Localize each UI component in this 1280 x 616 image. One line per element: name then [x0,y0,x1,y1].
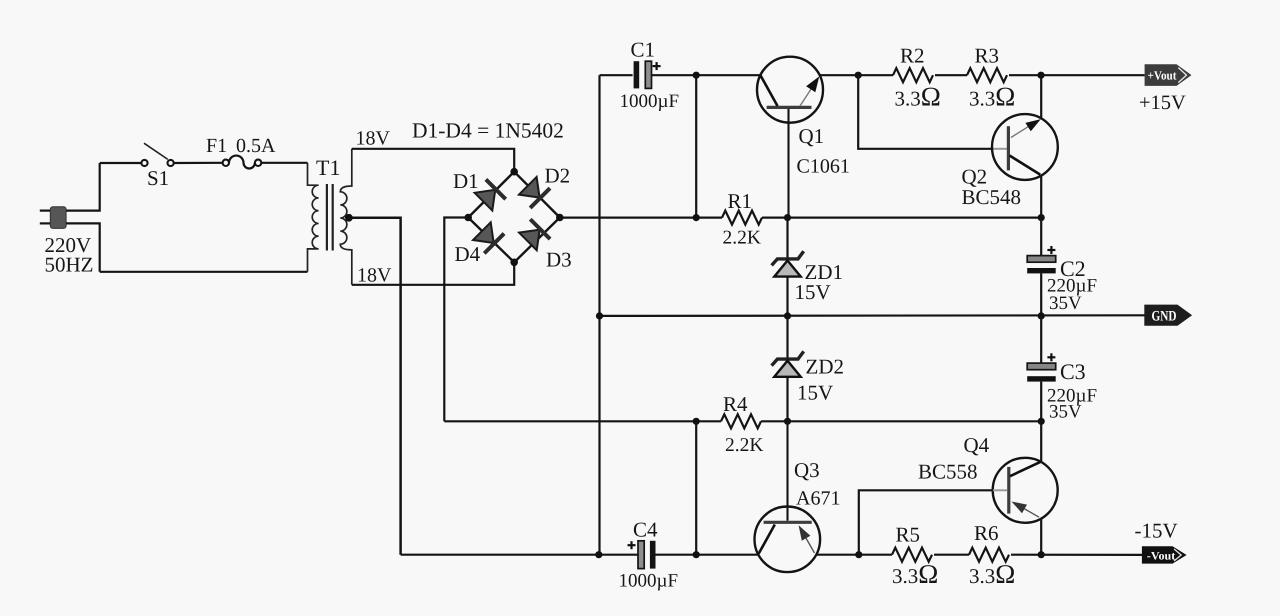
svg-text:R4: R4 [723,392,748,416]
+Vout tag [1145,64,1192,86]
wire R6 to -Vout [1011,554,1142,556]
junction C2 top [1038,214,1045,221]
diode D4 [472,221,504,253]
resistor R5 [892,548,932,562]
svg-text:C1: C1 [631,38,656,62]
svg-text:+Vout: +Vout [1148,69,1178,83]
svg-text:1000µF: 1000µF [620,91,680,112]
capacitor C1 [634,61,661,88]
wire R1 to Q2 emitter rail [762,217,1041,219]
svg-text:D2: D2 [545,164,571,188]
svg-text:D3: D3 [546,248,572,272]
svg-text:15V: 15V [797,381,833,405]
svg-text:GND: GND [1152,309,1177,325]
wire Q2 collector up [1040,75,1042,118]
svg-text:50HZ: 50HZ [45,253,94,277]
wire Q3 to R5 [816,554,892,556]
bottom rail left [401,554,638,556]
wire bridge left to raw negative vertical [444,218,468,422]
wire secondary bottom to bridge bottom [352,262,514,285]
svg-text:R3: R3 [975,44,1000,68]
GND tag [1144,305,1192,326]
wire R2 to R3 [935,74,967,76]
svg-text:ZD2: ZD2 [806,355,845,379]
svg-text:35V: 35V [1049,293,1082,314]
wire R4 to C3 rail [761,420,1041,422]
transformer T1 secondary [340,149,352,285]
capacitor C3 [1027,316,1056,421]
bridge node left [464,214,472,222]
svg-text:3.3Ω: 3.3Ω [969,81,1015,111]
svg-text:3.3Ω: 3.3Ω [892,559,938,589]
svg-text:+15V: +15V [1139,92,1186,114]
bridge node top [510,168,518,176]
capacitor C4 [628,541,656,569]
svg-text:BC558: BC558 [918,460,978,484]
top positive rail left of C1 [600,74,633,76]
resistor R3 [967,68,1007,82]
transistor Q3 [755,421,821,572]
wire fuse to transformer [261,162,307,164]
svg-text:T1: T1 [316,155,340,180]
junction raw- bottom [693,551,700,558]
svg-text:2.2K: 2.2K [723,228,761,249]
svg-text:R6: R6 [974,521,999,545]
bridge node right [556,214,564,222]
svg-text:3.3Ω: 3.3Ω [895,81,941,111]
wire Q4 emitter down [1040,519,1042,555]
fuse F1 [223,156,262,169]
junction output top [1037,72,1044,79]
junction C4 spine top [693,418,700,425]
junction raw+ at C1 line [693,214,700,221]
svg-text:C1061: C1061 [797,156,850,178]
svg-text:D1: D1 [453,169,479,193]
zener ZD1 [772,218,804,316]
svg-text:R5: R5 [896,523,921,547]
junction Q2 base takeoff [855,72,862,79]
resistor R4 [721,414,761,428]
diode D1 [474,179,506,211]
svg-text:0.5A: 0.5A [236,135,276,157]
svg-text:Q1: Q1 [799,124,825,148]
transformer T1 primary [308,163,319,272]
transformer core [326,184,328,251]
svg-text:-Vout: -Vout [1147,550,1176,562]
bottom primary rail [100,271,308,273]
resistor R6 [969,548,1009,562]
-Vout tag [1142,546,1187,563]
center tap junction [345,214,353,222]
negative rail with R4 [444,420,721,422]
junction raw+ top [693,72,700,79]
bridge node bottom [510,259,518,267]
transistor Q4 [993,458,1058,523]
transistor Q1 [757,57,823,218]
wire plug bottom to bottom rail [66,223,100,271]
bridge arm wires [468,172,560,263]
svg-text:35V: 35V [1049,402,1082,423]
wire to switch S1 [100,162,142,164]
junction Q4 base bottom [855,551,862,558]
diode D3 [518,219,550,251]
svg-text:F1: F1 [206,135,227,157]
svg-text:2.2K: 2.2K [725,435,763,456]
svg-text:D4: D4 [455,242,481,266]
svg-text:R2: R2 [900,44,925,68]
svg-text:3.3Ω: 3.3Ω [969,559,1015,589]
wire Q1 to R2 [820,74,893,76]
raw+ rail with R1 [560,217,722,219]
wire C4 to Q3 [655,554,758,556]
wire Q4 collector up [1040,421,1042,462]
junction Q1 base / ZD1 [784,214,791,221]
svg-text:A671: A671 [796,488,840,510]
svg-text:1000µF: 1000µF [619,571,679,592]
junction output bottom [1038,551,1045,558]
svg-text:Q3: Q3 [794,458,820,482]
svg-text:18V: 18V [356,128,391,150]
switch S1 [141,143,173,166]
svg-text:S1: S1 [147,166,169,190]
svg-text:C4: C4 [633,518,658,542]
wire R5 to R6 [934,554,969,556]
resistor R1 [722,211,762,225]
diode D2 [518,176,550,208]
wire raw- vertical to bottom rail [695,421,697,554]
resistor R2 [893,68,933,82]
svg-text:-15V: -15V [1135,519,1178,543]
AC plug [40,207,66,229]
svg-text:R1: R1 [728,189,753,213]
svg-text:15V: 15V [795,280,831,304]
transistor Q2 [992,114,1058,180]
svg-text:C3: C3 [1060,359,1086,384]
svg-text:BC548: BC548 [962,185,1022,209]
wire raw+ vertical top [695,75,697,218]
center tap wire [349,218,401,555]
wire plug top to switch rail [66,163,100,211]
junction Q3 base [784,418,791,425]
wire C1 to Q1 [651,74,760,76]
junction GND spine [596,312,603,319]
zener ZD2 [772,316,804,421]
wire Q2 emitter down [1040,176,1042,218]
junction ZD2 top [784,312,791,319]
junction C2 bottom [1038,312,1045,319]
svg-text:18V: 18V [357,265,392,287]
ground spine vertical [598,75,600,555]
junction GND spine bottom [595,551,602,558]
wire Q4 base [859,490,993,554]
junction C3 bottom [1038,418,1045,425]
svg-text:Q4: Q4 [964,433,990,457]
GND rail [600,314,1145,317]
svg-text:D1-D4 = 1N5402: D1-D4 = 1N5402 [412,118,564,142]
wire Q2 base [858,75,992,149]
wire secondary top to bridge top [352,149,514,172]
wire switch to fuse [174,162,223,164]
capacitor C2 [1027,218,1056,316]
wire R3 to +Vout [1009,74,1145,76]
